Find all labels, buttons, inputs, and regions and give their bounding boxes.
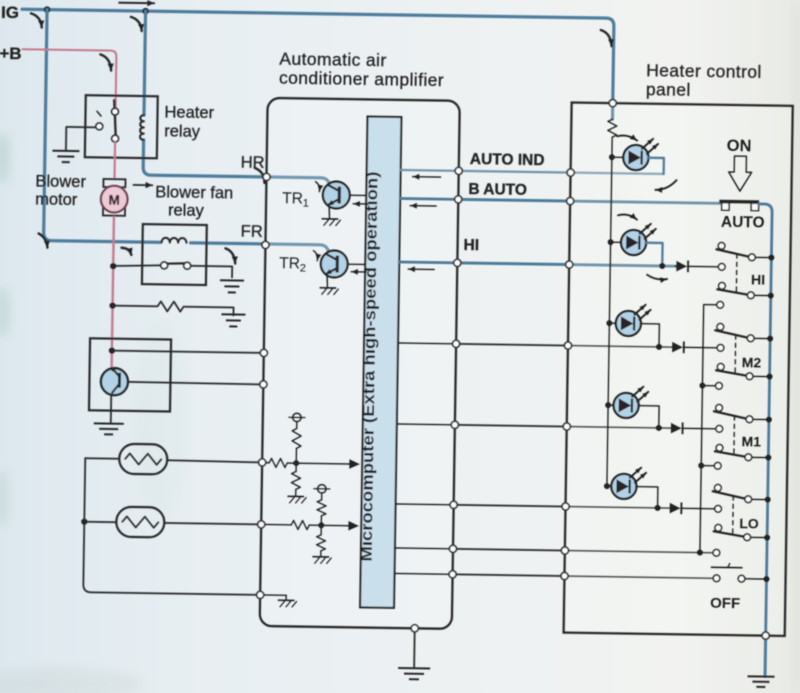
wire OFF line bbox=[395, 573, 713, 578]
svg-text:M1: M1 bbox=[741, 433, 761, 449]
thermistor TH2 bbox=[116, 507, 164, 538]
wire AUTO to rail bbox=[752, 204, 773, 677]
switch M2 lower contact bbox=[717, 363, 724, 370]
wire motor to power transistor bbox=[112, 217, 114, 368]
pin T2 bbox=[260, 381, 267, 388]
svg-text:motor: motor bbox=[35, 190, 78, 209]
panel connector bbox=[561, 572, 568, 579]
node TH2 junction bbox=[81, 519, 87, 525]
arrow B AUTO bbox=[410, 205, 436, 207]
blower fan relay contacts bbox=[161, 262, 168, 269]
node divider A junction bbox=[293, 460, 299, 466]
ON push arrow bbox=[728, 156, 752, 191]
wire LED1 cathode loop bbox=[648, 158, 664, 174]
svg-text:ON: ON bbox=[727, 137, 752, 155]
wire sensor return to ground stub bbox=[260, 594, 286, 596]
diode D-LO bbox=[669, 503, 680, 514]
node LED5/LO junction bbox=[654, 505, 660, 511]
wire LO upper to rail bbox=[752, 498, 768, 500]
wire LED5 cathode loop bbox=[636, 487, 658, 508]
curved arrow a8 bbox=[225, 248, 235, 263]
wire TR1 emitter lead bbox=[328, 205, 331, 218]
blower fan relay coil bbox=[162, 238, 187, 243]
wire IG bus bbox=[21, 9, 614, 119]
contact bypass M1 bbox=[715, 382, 722, 389]
switch LO upper contact bbox=[714, 484, 721, 491]
curved arrow LED1 upper bbox=[617, 135, 637, 140]
diode D-M1 bbox=[671, 423, 682, 434]
wire TH1 left bbox=[85, 457, 119, 460]
wire +B through relay to motor bbox=[113, 143, 116, 179]
blower motor M bbox=[103, 179, 125, 187]
transistor TR2 bbox=[321, 250, 348, 277]
svg-text:relay: relay bbox=[168, 201, 205, 220]
pin LO bbox=[450, 501, 457, 508]
LED M1 indicator bbox=[613, 393, 639, 419]
switch AUTO bbox=[719, 200, 759, 204]
wire FR line (coil to amplifier and TR2) bbox=[190, 243, 330, 254]
curved arrow LED1 lower bbox=[655, 180, 676, 190]
wire LED3 cathode loop bbox=[640, 324, 659, 347]
wire HI upper to rail bbox=[755, 256, 771, 258]
wire transistor base to amplifier bbox=[128, 382, 263, 385]
divider A input resistor bbox=[262, 462, 269, 464]
node LED HI anode junction bbox=[607, 239, 613, 245]
LED AUTO IND indicator bbox=[623, 145, 649, 171]
wire transistor emitter to ground bbox=[110, 395, 112, 422]
curved arrow a2 bbox=[131, 17, 142, 31]
wire B AUTO line bbox=[400, 198, 721, 203]
curved arrow TR1 hook bbox=[315, 182, 319, 192]
wire heater relay side contact to ground bbox=[66, 127, 96, 151]
wire diode to M2 contact bbox=[685, 346, 716, 348]
LED HI indicator bbox=[621, 230, 647, 256]
pin OFF bbox=[449, 571, 456, 578]
panel connector bbox=[561, 547, 568, 554]
svg-text:Heater: Heater bbox=[164, 103, 214, 122]
switch M1 upper contact bbox=[716, 404, 723, 411]
curved arrow a3 bbox=[100, 54, 111, 70]
microcomputer box bbox=[360, 116, 401, 607]
panel connector bbox=[566, 261, 573, 268]
node IG/left-branch junction bbox=[44, 6, 51, 13]
wire bypass LO stub bbox=[701, 465, 714, 467]
svg-text:+B: +B bbox=[0, 44, 22, 63]
wire resistor branch bbox=[113, 305, 157, 308]
pin AUTO-IND bbox=[455, 167, 462, 174]
arrow to blower fan relay label bbox=[133, 184, 152, 186]
amplifier box bbox=[260, 98, 460, 629]
contact feedback line bbox=[713, 549, 720, 556]
arrow HI bbox=[408, 268, 434, 270]
switch M2 signal contact bbox=[717, 344, 724, 351]
ground amplifier analog bbox=[278, 599, 295, 601]
switch LO upper blade bbox=[713, 491, 746, 499]
svg-text:M2: M2 bbox=[742, 354, 762, 370]
wire diode to LO contact bbox=[682, 507, 714, 509]
node motor/relay junction bbox=[110, 263, 116, 269]
wire M2 upper to rail bbox=[754, 337, 770, 339]
switch HI lower contact bbox=[718, 282, 725, 289]
LED LO indicator bbox=[611, 474, 637, 500]
svg-text:Blower: Blower bbox=[35, 172, 86, 191]
pin TH1 bbox=[259, 459, 266, 466]
pin T1 bbox=[260, 349, 267, 356]
svg-text:AUTO: AUTO bbox=[721, 214, 765, 232]
panel connector bbox=[567, 197, 574, 204]
wire LO lower to rail bbox=[751, 536, 767, 538]
node LED3/M2 junction bbox=[656, 344, 662, 350]
gang dash M2 bbox=[734, 335, 737, 374]
svg-text:HI: HI bbox=[463, 237, 479, 254]
ground amplifier main bbox=[398, 667, 430, 669]
curved arrow LED2 upper bbox=[618, 214, 637, 219]
switch M1 signal contact bbox=[716, 425, 723, 432]
divider B upper resistor bbox=[321, 493, 323, 500]
panel connector rail bottom bbox=[762, 632, 769, 639]
wire HI lower to rail bbox=[754, 294, 770, 296]
arrow TR2 base bbox=[351, 271, 366, 273]
panel connector IG bbox=[609, 100, 616, 107]
pin FR bbox=[262, 241, 269, 248]
node bypass LO bbox=[698, 462, 704, 468]
IG dropping resistor in panel bbox=[608, 119, 617, 137]
wire fan feedback line bbox=[395, 548, 712, 553]
divider A supply terminal bbox=[293, 413, 302, 422]
svg-text:Blower fan: Blower fan bbox=[155, 183, 233, 202]
pin FB bbox=[449, 545, 456, 552]
switch M2 upper blade bbox=[715, 330, 748, 338]
wire relay contact to ground bbox=[191, 266, 233, 278]
node LED M2 anode junction bbox=[606, 320, 612, 326]
blower fan relay blade bbox=[168, 262, 184, 265]
svg-text:conditioner amplifier: conditioner amplifier bbox=[279, 68, 444, 91]
divider B input resistor bbox=[261, 523, 291, 525]
curved arrow a5 bbox=[254, 168, 264, 183]
divider A lower resistor bbox=[295, 463, 297, 471]
switch OFF contacts bbox=[713, 575, 720, 582]
svg-text:M: M bbox=[108, 193, 119, 208]
switch HI upper blade bbox=[716, 249, 749, 257]
ground divider B bbox=[312, 556, 329, 558]
wire LED4 cathode loop bbox=[638, 406, 659, 428]
heater relay box bbox=[85, 95, 158, 158]
ground TR2 bbox=[319, 287, 336, 289]
svg-text:FR: FR bbox=[241, 223, 263, 241]
switch HI upper contact bbox=[718, 242, 725, 249]
heater relay blade bbox=[114, 100, 117, 135]
wire LED M2 anode bbox=[609, 322, 616, 324]
thermistor TH1 bbox=[119, 444, 167, 475]
wire M1 lower to rail bbox=[752, 456, 768, 458]
wire +B lead bbox=[22, 49, 117, 107]
pin M1 bbox=[451, 421, 458, 428]
node LED2/HI junction bbox=[659, 263, 665, 269]
panel connector bbox=[564, 342, 571, 349]
switch LO lower blade bbox=[714, 531, 745, 536]
blower fan relay box bbox=[142, 224, 207, 285]
pin GND bbox=[411, 625, 418, 632]
panel connector bbox=[562, 503, 569, 510]
wire relay contact to motor line bbox=[115, 265, 161, 267]
wire diode to HI contact bbox=[689, 265, 718, 267]
wire TH2 left bbox=[84, 521, 116, 523]
svg-text:LO: LO bbox=[739, 515, 759, 531]
wire LO line bbox=[396, 504, 670, 508]
wire IG left branch to FR bbox=[44, 10, 164, 243]
pin HR bbox=[263, 173, 270, 180]
ground divider A bbox=[287, 495, 304, 497]
node LED4/M1 junction bbox=[656, 425, 662, 431]
panel connector bbox=[567, 169, 574, 176]
diode D-HI bbox=[674, 265, 677, 267]
power transistor Q1 bbox=[101, 368, 128, 395]
wire +B inside relay bbox=[114, 104, 117, 144]
switch M1 lower blade bbox=[715, 451, 746, 456]
flow arrow on IG bus bbox=[119, 2, 154, 5]
pin COM bbox=[257, 591, 264, 598]
arrow divider A into microcomputer bbox=[349, 459, 360, 469]
panel connector bbox=[563, 423, 570, 430]
switch LO lower contact bbox=[715, 524, 722, 531]
ground resistor R1 bbox=[221, 313, 245, 315]
power transistor box bbox=[89, 338, 171, 411]
wire heater relay coil branch / HR line bbox=[143, 11, 334, 187]
resistor R1 blower dropping bbox=[157, 301, 183, 311]
LED M2 indicator bbox=[616, 311, 642, 337]
pin M2 bbox=[452, 340, 459, 347]
wire sensor common return bbox=[83, 458, 262, 595]
contact bypass M2 bbox=[717, 301, 724, 308]
wire LED supply rail bbox=[607, 137, 612, 486]
contact bypass LO bbox=[714, 462, 721, 469]
wire LED M1 anode bbox=[608, 404, 614, 406]
wire TR1 base to microcomputer bbox=[350, 194, 366, 196]
heater relay contact side bbox=[96, 123, 103, 130]
wire M1 line bbox=[397, 424, 671, 428]
wire bypass M1 stub bbox=[702, 385, 715, 387]
node LED M1 anode junction bbox=[605, 402, 611, 408]
gang dash M1 bbox=[733, 416, 736, 455]
ground blower fan relay bbox=[220, 279, 244, 281]
switch OFF bar bbox=[711, 566, 743, 568]
node bypass feedback bbox=[697, 549, 703, 555]
gang dash LO bbox=[732, 496, 735, 535]
wire OFF to rail bbox=[745, 578, 766, 580]
wire LED LO anode bbox=[607, 485, 612, 487]
svg-text:relay: relay bbox=[164, 122, 201, 141]
node motor/resistor junction bbox=[109, 302, 115, 308]
curved arrow LED2 lower bbox=[647, 275, 667, 280]
wire transistor top line to amplifier bbox=[112, 351, 264, 353]
wire M2 lower to rail bbox=[753, 375, 769, 377]
wire LED HI anode bbox=[611, 241, 622, 243]
wire TH2 to amplifier bbox=[164, 523, 261, 524]
switch HI lower blade bbox=[717, 289, 748, 294]
ground TR1 bbox=[321, 218, 338, 220]
switch HI signal contact bbox=[718, 263, 725, 270]
heater relay coil bbox=[140, 115, 144, 140]
gang dash HI bbox=[735, 254, 738, 293]
svg-text:IG: IG bbox=[1, 3, 19, 22]
heater control panel box bbox=[564, 103, 793, 636]
curved arrow a1 bbox=[31, 13, 42, 27]
switch M2 upper contact bbox=[717, 323, 724, 330]
curved arrow a4 bbox=[601, 30, 612, 46]
wire TR2 base to microcomputer bbox=[348, 263, 365, 265]
curved arrow TR2 hook bbox=[313, 251, 317, 261]
svg-text:HR: HR bbox=[241, 154, 265, 172]
svg-text:OFF: OFF bbox=[710, 595, 740, 612]
node IG/heater-coil junction bbox=[142, 8, 149, 15]
wire amplifier ground lead bbox=[413, 632, 416, 667]
curved arrow a7 bbox=[121, 248, 131, 255]
ground heater control panel bbox=[748, 675, 775, 677]
wire diode to M1 contact bbox=[684, 427, 716, 429]
wire TH1 to amplifier bbox=[167, 460, 262, 462]
switch M1 upper blade bbox=[714, 411, 747, 419]
svg-text:panel: panel bbox=[646, 79, 691, 100]
node transistor box top junction bbox=[109, 347, 115, 353]
pin TH2 bbox=[258, 521, 265, 528]
svg-text:B AUTO: B AUTO bbox=[468, 181, 527, 199]
ground power transistor bbox=[94, 422, 124, 424]
curved arrow a6 bbox=[38, 234, 47, 248]
switch M2 lower blade bbox=[716, 370, 747, 375]
wire M2 line bbox=[398, 343, 672, 347]
switch M1 lower contact bbox=[716, 444, 723, 451]
wire resistor to ground bbox=[184, 307, 233, 316]
arrow divider B into microcomputer bbox=[348, 521, 359, 531]
wire LED AUTO IND anode bbox=[612, 156, 624, 158]
pin HI bbox=[454, 259, 461, 266]
node LED LO anode junction bbox=[604, 483, 610, 489]
divider B supply terminal bbox=[318, 485, 327, 494]
wire TR2 emitter lead bbox=[326, 274, 329, 287]
node divider B junction bbox=[318, 522, 324, 528]
divider B lower resistor bbox=[320, 525, 322, 534]
wire M1 upper to rail bbox=[753, 418, 769, 420]
wire AUTO IND line bbox=[401, 170, 664, 174]
node bypass M1 bbox=[699, 382, 705, 388]
wire LED2 cathode loop bbox=[645, 243, 662, 266]
wire HI line bbox=[399, 262, 675, 266]
ground heater relay bbox=[52, 150, 79, 152]
transistor TR1 bbox=[323, 181, 350, 208]
node LED AUTO IND anode junction bbox=[609, 154, 615, 160]
arrow AUTO IND bbox=[413, 176, 441, 178]
heater relay contact bottom bbox=[112, 135, 119, 142]
wire speed bypass bus bbox=[700, 305, 717, 553]
diode D-M2 bbox=[672, 342, 683, 353]
svg-text:AUTO IND: AUTO IND bbox=[470, 151, 545, 169]
arrow TR1 base bbox=[353, 203, 368, 205]
switch LO signal contact bbox=[715, 505, 722, 512]
divider A upper resistor bbox=[296, 422, 298, 429]
svg-text:HI: HI bbox=[751, 271, 765, 287]
pin B-AUTO bbox=[455, 196, 462, 203]
heater relay contact top bbox=[112, 108, 119, 115]
